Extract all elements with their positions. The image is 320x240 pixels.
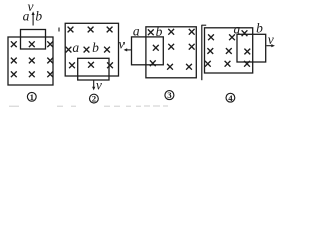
field X symbols panel 3 [148, 29, 195, 70]
field X symbols panel 4 [205, 30, 250, 66]
svg-text:a: a [72, 40, 79, 55]
velocity arrow down panel 2 [92, 81, 95, 91]
circled number 4 [226, 93, 235, 103]
svg-text:a: a [234, 21, 241, 36]
svg-text:v: v [119, 36, 125, 51]
svg-text:4: 4 [228, 93, 233, 103]
velocity arrow left panel 3 [124, 48, 132, 51]
svg-text:a: a [23, 8, 30, 23]
svg-text:b: b [92, 40, 99, 55]
stray vertical line left of panel 4 [201, 25, 203, 80]
loop rectangle 3 [132, 37, 164, 65]
field region square 1 [8, 37, 53, 85]
velocity arrow right panel 4 [266, 44, 275, 47]
field X symbols panel 1 [11, 41, 53, 77]
svg-text:2: 2 [92, 94, 97, 104]
prime tick after v panel 3 [123, 42, 125, 45]
field region square 2 [65, 23, 118, 76]
svg-text:v: v [96, 77, 102, 92]
loop rectangle 1 [21, 30, 46, 50]
svg-text:a: a [133, 24, 140, 39]
field region square 3 [146, 27, 196, 78]
stray top dash left of panel 4 [202, 24, 206, 26]
field X symbols panel 2 [66, 27, 113, 69]
stray mark between panel 1 and 2 [58, 28, 60, 32]
circled number 2 [90, 94, 99, 104]
svg-text:v: v [268, 32, 274, 47]
circled number 1 [27, 92, 36, 102]
loop rectangle 2 [78, 58, 109, 80]
svg-text:3: 3 [167, 90, 172, 100]
svg-text:1: 1 [30, 92, 34, 102]
loop rectangle 4 [237, 34, 266, 62]
circled number 3 [165, 90, 174, 100]
field region square 4 [205, 28, 253, 73]
velocity arrow up panel 1 [32, 11, 35, 25]
svg-text:b: b [156, 24, 163, 39]
svg-text:b: b [256, 20, 263, 35]
svg-text:b: b [35, 8, 42, 23]
faint cut-off text marks at bottom edge [9, 105, 168, 107]
